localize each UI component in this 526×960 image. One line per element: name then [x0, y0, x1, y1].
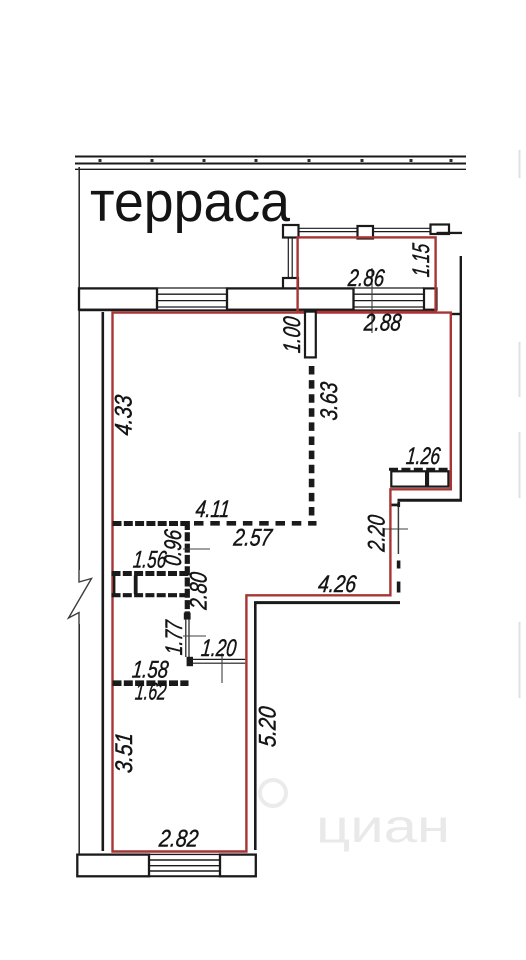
svg-text:1.26: 1.26: [405, 443, 442, 470]
svg-text:5.20: 5.20: [255, 705, 282, 748]
svg-text:3.51: 3.51: [111, 731, 138, 774]
svg-text:4.33: 4.33: [111, 393, 138, 436]
svg-text:1.00: 1.00: [279, 315, 306, 354]
svg-text:2.20: 2.20: [364, 513, 391, 553]
svg-text:0.96: 0.96: [160, 528, 187, 567]
svg-text:2.57: 2.57: [232, 525, 275, 552]
svg-text:1.77: 1.77: [161, 618, 188, 656]
svg-text:1.20: 1.20: [200, 635, 238, 662]
svg-text:циан: циан: [316, 800, 450, 852]
svg-text:2.80: 2.80: [186, 570, 213, 611]
svg-text:4.11: 4.11: [194, 496, 231, 523]
svg-text:2.88: 2.88: [362, 310, 403, 337]
svg-text:2.82: 2.82: [157, 826, 200, 853]
svg-text:3.63: 3.63: [316, 380, 343, 421]
svg-text:1.62: 1.62: [134, 679, 168, 706]
svg-text:терраса: терраса: [90, 170, 290, 234]
svg-text:2.86: 2.86: [346, 265, 386, 292]
svg-text:1.15: 1.15: [408, 242, 435, 278]
svg-text:4.26: 4.26: [317, 571, 358, 598]
